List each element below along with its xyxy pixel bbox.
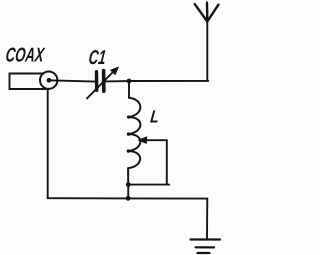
- antenna symbol: [195, 3, 219, 22]
- tap wire bottom horizontal: [128, 184, 169, 186]
- wire top node to antenna: [129, 80, 208, 82]
- node junction dot top: [127, 79, 132, 84]
- ground symbol: [191, 240, 221, 254]
- coax connector center pin: [47, 78, 52, 83]
- svg-text:C1: C1: [87, 47, 107, 69]
- wire coax pin to C1: [49, 80, 95, 81]
- wire C1 to top node: [106, 80, 129, 82]
- tap wire right vertical: [166, 140, 168, 184]
- capacitor C1 right plate: [102, 71, 106, 92]
- tap arrow tail wire: [146, 139, 167, 141]
- inductor cusp blobs: [127, 115, 130, 118]
- wire top node down to inductor: [128, 81, 130, 98]
- bottom ground bus wire: [48, 197, 208, 199]
- capacitor C1 variable arrow head: [111, 67, 119, 75]
- node junction dot on ground bus: [126, 196, 131, 201]
- coax connector circle: [40, 72, 57, 89]
- coax shield down wire: [47, 89, 49, 198]
- capacitor C1 variable arrow shaft: [87, 72, 114, 99]
- wire inductor bottom to ground bus: [127, 185, 129, 199]
- ground lead wire: [206, 199, 208, 240]
- node junction dot inductor bottom: [126, 182, 131, 187]
- coax cable body: [10, 74, 49, 90]
- capacitor C1 left plate: [95, 72, 99, 91]
- svg-text:COAX: COAX: [4, 44, 46, 66]
- tap arrow head: [138, 137, 146, 144]
- antenna lead wire: [206, 22, 208, 81]
- inductor L coil: [128, 98, 140, 185]
